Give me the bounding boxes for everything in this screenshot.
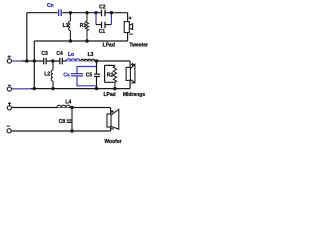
wire tweeter return vertical <box>127 33 129 42</box>
wire woofer minus <box>11 130 110 132</box>
woofer speaker <box>107 109 119 129</box>
node mid bus1 <box>25 59 28 62</box>
capacitor Cs blue loop <box>71 67 97 86</box>
svg-text:R1: R1 <box>80 23 87 29</box>
wire top horizontal <box>27 12 128 14</box>
midrange speaker <box>126 64 135 82</box>
wire tweeter return horizontal <box>34 40 127 42</box>
input2 minus mark <box>7 125 10 127</box>
wire input1 minus purple <box>12 88 31 90</box>
wire minus rail <box>31 88 130 90</box>
capacitor C1 <box>102 22 106 28</box>
resistor R2 <box>113 65 116 88</box>
wire tweeter feed <box>127 13 129 22</box>
midrange plus mark <box>131 63 134 66</box>
svg-text:Woofer: Woofer <box>104 139 121 145</box>
capacitor C2 <box>102 10 106 16</box>
svg-text:LPad: LPad <box>103 92 115 98</box>
wire woofer return vertical <box>110 127 112 131</box>
inductor L1 <box>69 13 71 41</box>
capacitor C4 <box>60 58 63 64</box>
capacitor C3 <box>44 58 47 64</box>
svg-text:L3: L3 <box>88 52 94 58</box>
node return R1 <box>85 39 88 42</box>
wire top bus vertical left <box>26 13 28 61</box>
svg-text:LPad: LPad <box>103 42 115 48</box>
wire woofer horizontal <box>70 107 110 109</box>
node top L1 <box>69 11 72 14</box>
svg-text:C1: C1 <box>99 29 106 35</box>
wire midrange return <box>129 80 131 88</box>
capacitor Cn <box>59 9 62 16</box>
resistor R1 <box>85 13 88 41</box>
wire midrange feed <box>129 61 131 67</box>
svg-text:L1: L1 <box>63 23 69 29</box>
input1 plus mark <box>8 55 11 58</box>
node return L1 <box>69 39 72 42</box>
node rail C5 <box>95 87 98 90</box>
input1 minus mark <box>8 84 11 86</box>
node rail LPad <box>113 87 116 90</box>
terminal input1 plus <box>7 59 11 63</box>
terminal input2 minus <box>7 129 11 133</box>
wire woofer feed <box>110 108 112 115</box>
terminal input2 plus <box>7 106 11 110</box>
inductor L3 <box>81 59 95 61</box>
inductor Lo blue <box>66 59 80 61</box>
inductor L4 <box>57 105 70 107</box>
node woofer L4 <box>70 106 73 109</box>
node woofer C8 return <box>70 129 73 132</box>
svg-text:Tweeter: Tweeter <box>129 42 148 48</box>
wire woofer plus <box>12 107 57 109</box>
wire return bus vertical <box>33 41 35 89</box>
wire input1 plus purple <box>12 60 22 62</box>
inductor L2 <box>51 61 53 89</box>
tweeter minus mark <box>129 33 132 35</box>
svg-text:C2: C2 <box>99 4 106 10</box>
woofer minus mark <box>111 128 114 130</box>
svg-text:L2: L2 <box>44 71 50 77</box>
terminal input1 minus <box>7 87 11 91</box>
node mid C5 <box>95 59 98 62</box>
node rail bus <box>33 87 36 90</box>
LPad midrange box <box>105 65 115 82</box>
svg-text:C4: C4 <box>56 51 63 57</box>
wire C1 branch right vertical <box>110 13 112 25</box>
tweeter plus mark <box>129 17 132 20</box>
svg-text:Midrange: Midrange <box>123 92 145 98</box>
node top C-branch right <box>110 11 113 14</box>
woofer plus mark <box>111 110 114 113</box>
node top R1 <box>85 11 88 14</box>
svg-text:C5: C5 <box>86 73 93 79</box>
input2 plus mark <box>8 102 11 105</box>
svg-text:Cn: Cn <box>47 3 54 9</box>
svg-text:L4: L4 <box>65 99 71 105</box>
node top C-branch left <box>94 11 97 14</box>
wire C1 branch left vertical <box>95 13 97 25</box>
wire mid horizontal <box>22 60 131 62</box>
wire C1 branch horizontals <box>96 24 111 26</box>
capacitor C5 <box>94 61 100 89</box>
node mid bus2 <box>33 59 36 62</box>
capacitor C8 <box>67 108 72 132</box>
svg-text:Lo: Lo <box>68 52 74 58</box>
midrange minus mark <box>131 82 134 84</box>
tweeter speaker <box>124 22 132 33</box>
svg-text:C3: C3 <box>41 51 48 57</box>
svg-text:R2: R2 <box>107 72 114 78</box>
svg-text:C8: C8 <box>59 119 66 125</box>
svg-text:Cs: Cs <box>63 72 70 78</box>
node mid L2 <box>51 59 54 62</box>
node rail L2 <box>51 87 54 90</box>
